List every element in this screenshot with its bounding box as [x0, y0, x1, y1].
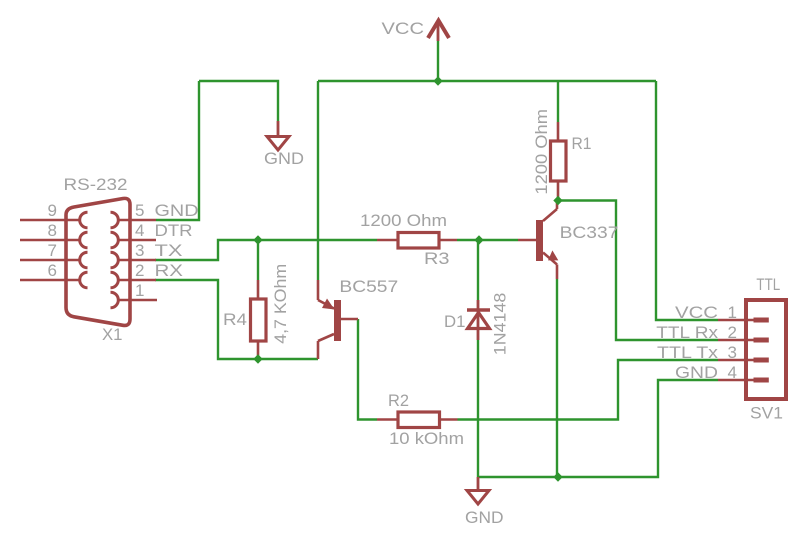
label SV1	[750, 404, 783, 423]
svg-text:VCC: VCC	[382, 19, 425, 38]
svg-text:TX: TX	[155, 241, 183, 260]
wire VCC stem	[437, 41, 439, 81]
net label TTL Tx at SV1	[657, 343, 719, 362]
pin number 4	[135, 221, 144, 240]
connector X1 DB9 body	[66, 198, 130, 325]
resistor R4	[251, 280, 267, 359]
name label BC337	[560, 223, 619, 242]
svg-text:GND: GND	[155, 201, 199, 220]
X1 pin 2	[111, 272, 157, 288]
name label R4	[223, 310, 247, 329]
X1 pin 5	[111, 212, 157, 228]
name label R3	[424, 249, 450, 268]
svg-text:BC557: BC557	[339, 277, 398, 296]
svg-text:R3: R3	[424, 249, 450, 268]
pin number 3	[135, 241, 144, 260]
wire rail to SV1 pin1 VCC	[656, 81, 718, 320]
wire R4 top to TX node	[257, 240, 259, 280]
svg-text:7: 7	[48, 241, 57, 260]
ground symbol GND (top)	[267, 121, 289, 150]
wire RX net	[155, 280, 318, 359]
svg-text:3: 3	[135, 241, 144, 260]
svg-text:GND: GND	[675, 363, 718, 382]
name label D1	[444, 312, 465, 331]
connector SV1 body	[746, 300, 786, 399]
svg-text:R4: R4	[223, 310, 247, 329]
X1 pin 3	[111, 252, 157, 268]
X1 pin 7	[20, 252, 88, 268]
svg-text:R1: R1	[572, 134, 592, 153]
wire R2 right to SV1 pin3 TTL Tx	[458, 360, 719, 420]
svg-text:1N4148: 1N4148	[491, 293, 510, 356]
svg-text:4,7 KOhm: 4,7 KOhm	[271, 264, 290, 344]
junction at VCC node	[433, 76, 442, 85]
pin number 9	[48, 201, 57, 220]
svg-text:RS-232: RS-232	[64, 175, 128, 194]
label VCC supply	[382, 19, 425, 38]
svg-text:TTL: TTL	[756, 275, 780, 294]
svg-text:VCC: VCC	[675, 303, 718, 322]
svg-text:2: 2	[728, 323, 737, 342]
label X1	[102, 325, 123, 344]
label GND (top)	[264, 149, 304, 168]
ground symbol GND (bottom)	[467, 477, 489, 504]
pin number 3 (SV1)	[728, 343, 737, 362]
svg-text:SV1: SV1	[750, 404, 783, 423]
svg-text:RX: RX	[155, 261, 184, 280]
wire D1 bottom to GND	[477, 340, 479, 477]
name label BC557	[339, 277, 398, 296]
X1 pin 4	[111, 232, 157, 248]
transistor Q2 BC337	[518, 200, 558, 279]
wire TX net	[155, 240, 377, 260]
SV1 pin 2	[718, 338, 769, 343]
svg-text:8: 8	[48, 221, 57, 240]
wire R3 right to BC337 base	[457, 239, 518, 241]
wire GND bottom to SV1 pin4	[478, 380, 718, 477]
SV1 pin 4	[718, 378, 769, 383]
label RS-232	[64, 175, 128, 194]
svg-text:10 kOhm: 10 kOhm	[389, 429, 464, 448]
resistor R1	[551, 122, 567, 200]
svg-text:9: 9	[48, 201, 57, 220]
net label DTR at X1	[155, 221, 193, 240]
X1 pin 1	[111, 292, 158, 308]
pin number 7	[48, 241, 57, 260]
svg-text:TTL Tx: TTL Tx	[657, 343, 719, 362]
svg-text:1200 Ohm: 1200 Ohm	[360, 211, 447, 230]
net label TX at X1	[155, 241, 183, 260]
pin number 6	[48, 261, 57, 280]
svg-text:D1: D1	[444, 312, 465, 331]
resistor R3	[377, 233, 457, 249]
pin number 1	[135, 281, 144, 300]
svg-text:1: 1	[135, 281, 144, 300]
junction at TX / R4 top node	[253, 235, 262, 244]
junction at R1 / BC337 collector node	[553, 196, 562, 205]
wire BC557 emitter to rail	[317, 81, 319, 280]
svg-text:TTL Rx: TTL Rx	[656, 323, 718, 342]
wire X1 pin5 GND riser	[156, 81, 199, 220]
resistor R2	[377, 412, 458, 428]
X1 pin 8	[20, 232, 88, 248]
svg-text:GND: GND	[264, 149, 304, 168]
svg-text:DTR: DTR	[155, 221, 193, 240]
junction at RX / R4 bottom node	[253, 354, 262, 363]
wire BC337 collector to SV1 pin2 TTL Rx	[557, 201, 718, 341]
junction at GND / BC337 emitter node	[553, 472, 562, 481]
value label 1N4148	[491, 293, 510, 356]
svg-text:4: 4	[135, 221, 144, 240]
svg-text:3: 3	[728, 343, 737, 362]
net label TTL Rx at SV1	[656, 323, 718, 342]
value label 1200 Ohm (R1)	[532, 109, 551, 195]
X1 pin 9	[20, 212, 88, 228]
svg-text:4: 4	[728, 363, 737, 382]
svg-text:X1: X1	[102, 325, 123, 344]
net label VCC at SV1	[675, 303, 718, 322]
junction at R3 / D1 / BC337 base node	[474, 235, 483, 244]
svg-text:1200 Ohm: 1200 Ohm	[532, 109, 551, 195]
net label GND at X1	[155, 201, 199, 220]
name label R2	[388, 391, 409, 410]
value label 10 kOhm (R2)	[389, 429, 464, 448]
wire GND top horizontal	[199, 81, 278, 121]
pin number 8	[48, 221, 57, 240]
label GND (bottom)	[465, 508, 504, 527]
supply symbol VCC	[428, 21, 449, 42]
SV1 pin 1	[718, 318, 769, 323]
svg-text:R2: R2	[388, 391, 409, 410]
transistor Q1 BC557	[318, 280, 358, 359]
net label RX at X1	[155, 261, 184, 280]
pin number 5	[135, 201, 144, 220]
value label 1200 Ohm (R3)	[360, 211, 447, 230]
svg-text:BC337: BC337	[560, 223, 619, 242]
pin number 2	[135, 261, 144, 280]
svg-text:GND: GND	[465, 508, 504, 527]
diode D1	[467, 300, 490, 340]
wire VCC rail	[318, 80, 656, 82]
name label R1	[572, 134, 592, 153]
pin number 4 (SV1)	[728, 363, 737, 382]
wire BC337 emitter down	[556, 279, 558, 477]
pin number 1 (SV1)	[728, 303, 737, 322]
svg-text:1: 1	[728, 303, 737, 322]
svg-text:5: 5	[135, 201, 144, 220]
value label 4,7 KOhm (R4)	[271, 264, 290, 344]
wire BC557 base to R2	[358, 319, 377, 420]
net label GND at SV1	[675, 363, 718, 382]
svg-text:6: 6	[48, 261, 57, 280]
pin number 2 (SV1)	[728, 323, 737, 342]
label TTL	[756, 275, 780, 294]
X1 pin 6	[20, 272, 88, 288]
wire rail to R1 top	[557, 81, 559, 122]
SV1 pin 3	[718, 358, 769, 363]
wire node to D1 top	[477, 240, 479, 300]
svg-text:2: 2	[135, 261, 144, 280]
